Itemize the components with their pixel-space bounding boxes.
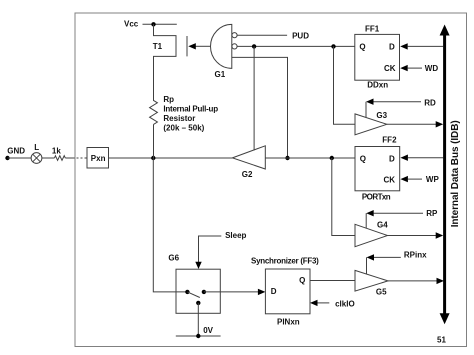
wire pin line down to G6: [153, 158, 187, 292]
wire RPinx to G5 enable: [374, 256, 401, 258]
svg-text:RPinx: RPinx: [404, 251, 427, 260]
svg-text:Resistor: Resistor: [163, 114, 195, 123]
arrowhead into FF3 D: [258, 289, 266, 295]
transistor T1 gate bar: [186, 36, 188, 56]
svg-text:PORTxn: PORTxn: [362, 193, 391, 202]
svg-text:clkIO: clkIO: [335, 300, 355, 309]
arrowhead into FF2 CK: [400, 176, 408, 182]
pin Pxn box: [87, 148, 109, 169]
svg-text:Vcc: Vcc: [124, 19, 139, 28]
wire Pxn to G2 apex: [109, 157, 233, 159]
resistor Rp zigzag: [150, 100, 158, 124]
wire G5 output to bus: [388, 280, 437, 282]
junction dot at 0V: [196, 334, 200, 338]
wire bus to FF1 D: [408, 45, 444, 47]
svg-text:0V: 0V: [203, 326, 213, 335]
svg-text:D: D: [389, 42, 395, 51]
wire FF2 Q to G2 input: [265, 157, 355, 159]
arrowhead RP: [366, 210, 374, 216]
svg-text:Synchronizer (FF3): Synchronizer (FF3): [251, 256, 319, 265]
svg-text:Q: Q: [360, 154, 366, 163]
svg-text:G6: G6: [168, 253, 179, 262]
svg-text:Internal Pull-up: Internal Pull-up: [163, 105, 218, 114]
wire WP to FF2 CK: [408, 178, 422, 180]
svg-text:G5: G5: [376, 288, 387, 297]
svg-text:D: D: [389, 154, 395, 163]
wire FF3 Q to G5: [310, 280, 355, 282]
buffer G5: [355, 270, 388, 291]
junction dot G1 bottom input at pin line: [285, 156, 289, 160]
svg-text:WD: WD: [425, 64, 439, 73]
wire WD to FF1 CK: [408, 67, 422, 69]
arrowhead RD: [366, 99, 374, 105]
arrowhead Sleep into G6: [195, 262, 201, 269]
svg-text:FF1: FF1: [365, 25, 380, 34]
svg-text:(20k – 50k): (20k – 50k): [163, 124, 204, 133]
wire FF1 Q branch down to G3: [334, 46, 356, 124]
arrowhead clkIO into FF3: [310, 300, 318, 306]
wire G6 to 0V: [197, 303, 199, 336]
junction dot PORTxn branch: [330, 156, 334, 160]
svg-text:G1: G1: [215, 70, 226, 79]
svg-text:PINxn: PINxn: [277, 318, 300, 327]
svg-text:Rp: Rp: [163, 95, 174, 104]
svg-text:WP: WP: [426, 175, 440, 184]
border frame: [75, 13, 467, 347]
wire lamp to resistor: [42, 157, 55, 159]
lamp L: [31, 153, 42, 164]
svg-text:L: L: [34, 143, 39, 152]
wire Sleep to G6: [199, 236, 222, 262]
wire RPinx enable down to G5: [366, 257, 368, 274]
wire Rp to pin line: [153, 124, 155, 158]
junction dot G1 middle input: [252, 44, 256, 48]
svg-text:CK: CK: [384, 64, 396, 73]
flip-flop FF2 box: [355, 147, 400, 191]
arrowhead RPinx: [367, 254, 375, 260]
gate G1 body: [211, 24, 232, 68]
arrowhead into FF2 D: [400, 155, 408, 161]
wire RD enable down to G3: [365, 102, 367, 118]
switch G6 right contact dot: [202, 290, 206, 294]
svg-text:Q: Q: [359, 42, 365, 51]
svg-text:DDxn: DDxn: [367, 81, 388, 90]
buffer G2: [232, 146, 265, 169]
svg-text:51: 51: [437, 335, 446, 344]
wire G1 output to T1 gate: [196, 45, 211, 47]
svg-text:Pxn: Pxn: [91, 154, 106, 163]
ground 0V bar: [176, 335, 221, 337]
wire G4 output to bus: [388, 235, 437, 237]
wire DDxn enable down to G2: [253, 46, 255, 150]
arrowhead into FF1 CK: [400, 65, 408, 71]
svg-text:Q: Q: [299, 276, 305, 285]
svg-text:CK: CK: [384, 175, 396, 184]
arrowhead into FF1 D: [400, 43, 408, 49]
arrowhead at T1 gate: [188, 43, 196, 49]
wire bus to FF2 D: [408, 157, 443, 159]
svg-text:FF2: FF2: [382, 135, 397, 144]
gate G1 bubble middle: [232, 44, 237, 49]
svg-text:G2: G2: [242, 170, 253, 179]
wire PUD input: [237, 34, 287, 36]
wire resistor to border: [65, 157, 72, 159]
junction dot pin line / T1 drain: [151, 156, 155, 160]
svg-text:GND: GND: [7, 147, 25, 156]
svg-text:Internal Data Bus (IDB): Internal Data Bus (IDB): [450, 120, 461, 227]
wire clkIO to FF3: [318, 302, 330, 304]
wire dashed into Pxn: [73, 157, 88, 159]
flip-flop FF3 box: [265, 269, 310, 314]
switch G6 box: [176, 269, 220, 313]
resistor 1k: [55, 156, 66, 161]
flip-flop FF1 box: [355, 34, 400, 80]
svg-text:RD: RD: [424, 98, 436, 107]
svg-text:D: D: [271, 287, 277, 296]
switch G6 bottom contact dot: [196, 301, 200, 305]
svg-text:RP: RP: [426, 209, 438, 218]
junction dot Vcc / T1 source: [151, 22, 155, 26]
node GND terminal dot: [5, 156, 9, 160]
wire G6 to FF3 D: [204, 291, 258, 293]
arrowhead G3 to bus: [436, 121, 444, 127]
wire PORTxn branch down to G4: [332, 158, 355, 236]
junction dot FF1 Q branch: [331, 44, 335, 48]
wire RP to G4 enable: [374, 212, 423, 214]
wire DDxn Q to G1 middle input: [237, 45, 355, 47]
svg-text:PUD: PUD: [292, 31, 309, 40]
svg-text:T1: T1: [153, 42, 163, 51]
arrowhead G5 to bus: [437, 278, 445, 284]
wire G1 bottom input: [232, 57, 288, 158]
bus IDB top arrowhead: [440, 25, 450, 36]
gate G1 bubble top: [232, 33, 237, 38]
switch G6 left contact dot: [185, 290, 189, 294]
wire GND to lamp: [8, 157, 32, 159]
arrowhead G4 to bus: [436, 232, 444, 238]
buffer G3: [355, 114, 387, 135]
switch G6 lever: [187, 292, 199, 298]
svg-text:G3: G3: [376, 111, 387, 120]
transistor T1 body: [154, 24, 177, 101]
bus IDB bottom arrowhead: [440, 313, 450, 324]
svg-text:G4: G4: [377, 220, 388, 229]
wire RD to G3 enable: [373, 101, 421, 103]
bus IDB thick line: [443, 33, 446, 316]
buffer G4: [355, 224, 388, 246]
wire Vcc rail: [143, 23, 177, 25]
svg-text:Sleep: Sleep: [225, 231, 246, 240]
wire RP enable down to G4: [365, 213, 367, 228]
svg-text:1k: 1k: [52, 147, 61, 156]
wire G3 output to bus: [387, 123, 436, 125]
